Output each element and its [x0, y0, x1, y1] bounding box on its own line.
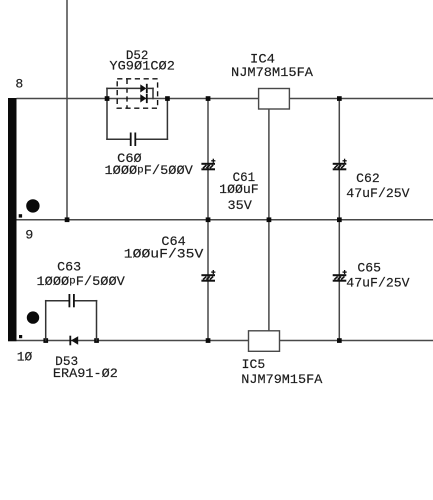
wire bottom rail pin10 y=340.5	[17, 340, 433, 342]
IC4 regulator box	[259, 89, 290, 110]
diode D52 package dashed box	[117, 79, 157, 108]
svg-text:9: 9	[25, 228, 33, 242]
junction top rail x=339.3	[337, 96, 342, 101]
capacitor C65 electrolytic symbol	[333, 270, 347, 281]
junction middle rail x=67	[65, 217, 70, 222]
wire C60 loop bottom right	[136, 138, 167, 140]
wire C60 loop right	[166, 99, 168, 140]
wire C60 loop left	[106, 99, 108, 140]
pin 9 contact dot	[26, 199, 39, 212]
capacitor C60	[131, 133, 136, 147]
junction top rail x=107	[105, 96, 110, 101]
junction bottom rail x=45.7	[43, 338, 48, 343]
capacitor C62 electrolytic symbol	[333, 159, 347, 170]
svg-text:35V: 35V	[228, 199, 253, 213]
diode D52 lower diode	[140, 94, 147, 103]
svg-text:IC5: IC5	[242, 358, 266, 372]
svg-text:47uF/25V: 47uF/25V	[346, 277, 410, 291]
svg-text:C62: C62	[356, 172, 380, 186]
svg-text:IC4: IC4	[250, 53, 275, 67]
wire C63 loop left	[45, 301, 47, 341]
wire C63 loop right	[96, 301, 98, 341]
svg-text:1ØØØpF/5ØØV: 1ØØØpF/5ØØV	[105, 164, 194, 178]
wire C60 loop bottom left	[107, 138, 130, 140]
small mark above middle rail	[19, 214, 22, 217]
svg-text:1Ø: 1Ø	[17, 351, 33, 365]
diode D52 upper diode	[140, 84, 147, 93]
junction middle rail x=339.3	[337, 217, 342, 222]
diode D52 package inner dashed line	[126, 79, 128, 108]
pin 10 contact dot	[27, 311, 39, 323]
svg-text:1ØØØpF/5ØØV: 1ØØØpF/5ØØV	[37, 275, 126, 289]
svg-text:8: 8	[15, 78, 23, 92]
capacitor C61 electrolytic symbol	[201, 159, 215, 170]
diode D53	[70, 336, 78, 346]
junction bottom rail x=96.5	[94, 338, 99, 343]
wire middle rail pin9 y=219.7	[17, 219, 433, 221]
wire D52 upper branch horizontal	[107, 87, 141, 89]
capacitor C63	[69, 294, 74, 307]
wire C63 loop top left	[46, 300, 69, 302]
junction bottom rail x=208	[206, 338, 211, 343]
svg-text:C65: C65	[357, 262, 381, 276]
svg-text:NJM79M15FA: NJM79M15FA	[241, 373, 323, 387]
small mark above bottom rail	[19, 335, 22, 338]
svg-text:1ØØuF/35V: 1ØØuF/35V	[124, 248, 204, 262]
connector bar	[8, 98, 17, 341]
wire vertical input bus x=67	[66, 0, 68, 220]
wire top rail pin8 y=98.5	[17, 98, 433, 100]
junction bottom rail x=339.3	[337, 338, 342, 343]
svg-text:C63: C63	[57, 261, 81, 275]
junction middle rail x=208	[206, 217, 211, 222]
IC5 regulator box	[249, 331, 280, 352]
wire D52 upper branch left vertical	[106, 88, 108, 98]
svg-text:YG9Ø1CØ2: YG9Ø1CØ2	[109, 60, 174, 74]
wire vertical C61/C64 branch x=208	[207, 99, 209, 341]
wire D52 upper branch right vertical	[152, 88, 154, 98]
junction top rail x=167.4	[165, 96, 170, 101]
junction top rail x=208	[206, 96, 211, 101]
wire D52 upper branch right horizontal	[147, 87, 153, 89]
wire vertical C62/C65 branch x=339.3	[338, 99, 340, 341]
svg-text:ERA91-Ø2: ERA91-Ø2	[53, 367, 118, 381]
svg-text:NJM78M15FA: NJM78M15FA	[231, 66, 314, 80]
wire vertical IC4 to IC5 x=268.9	[268, 109, 270, 331]
junction middle rail x=268.9	[267, 217, 272, 222]
svg-text:1ØØuF: 1ØØuF	[219, 183, 259, 197]
capacitor C64 electrolytic symbol	[201, 270, 215, 281]
wire C63 loop top right	[75, 300, 97, 302]
svg-text:47uF/25V: 47uF/25V	[346, 187, 410, 201]
